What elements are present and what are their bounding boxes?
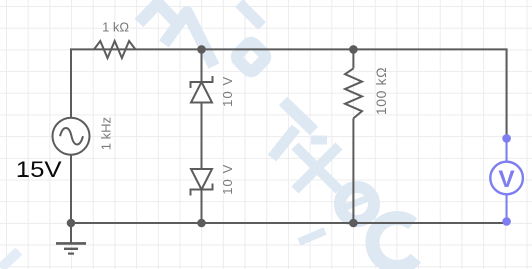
voltmeter terminal - <box>502 217 511 226</box>
resistor R2 100 kOhm <box>345 68 362 118</box>
node C (top of R2) <box>349 45 358 54</box>
node D (bottom of R2) <box>349 219 358 228</box>
wire middle branch bottom <box>201 190 203 224</box>
svg-text:1 kΩ: 1 kΩ <box>102 20 129 35</box>
ground <box>56 223 86 254</box>
watermark <box>1 3 416 268</box>
wire bottom horizontal <box>71 155 507 223</box>
node ground junction <box>67 219 76 228</box>
wire right resistor branch top <box>352 49 354 68</box>
resistor R1 1 kOhm <box>94 41 135 58</box>
wire middle branch between diodes <box>201 103 203 170</box>
zener diode D2 <box>191 169 213 196</box>
zener diode D1 <box>191 76 213 103</box>
node A (top of zener branch) <box>197 45 206 54</box>
source V1 AC <box>53 118 90 155</box>
svg-text:15V: 15V <box>16 158 62 183</box>
wire right resistor branch bottom <box>352 118 354 223</box>
wire top horizontal <box>71 49 507 138</box>
svg-text:V: V <box>498 166 515 193</box>
voltmeter terminal + <box>502 134 511 143</box>
svg-text:10 V: 10 V <box>220 76 235 107</box>
svg-text:10 V: 10 V <box>220 164 235 195</box>
svg-text:1 kHz: 1 kHz <box>98 117 113 150</box>
svg-text:100 kΩ: 100 kΩ <box>373 67 389 115</box>
wire middle branch top <box>201 49 203 82</box>
node B (bottom of zener branch) <box>197 219 206 228</box>
voltmeter probe wire <box>506 138 508 221</box>
voltmeter U1 <box>490 162 523 195</box>
